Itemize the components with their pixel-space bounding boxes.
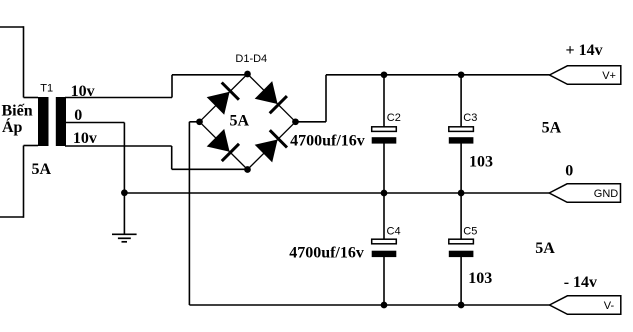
diode D2 (top-to-right) <box>255 81 287 113</box>
svg-text:D1-D4: D1-D4 <box>235 53 267 65</box>
wire: secondary 0 center tap <box>65 122 124 124</box>
wire: center tap drop to ground rail <box>123 123 125 194</box>
svg-text:10v: 10v <box>73 130 97 147</box>
svg-text:C4: C4 <box>387 226 401 238</box>
bridge rectifier D1-D4 diamond wires <box>200 74 296 170</box>
wire: +14v rail <box>326 74 550 76</box>
capacitor C5 plates <box>449 239 474 257</box>
wire: secondary 10v bottom tap <box>65 145 172 147</box>
svg-text:GND: GND <box>594 188 619 200</box>
node: center tap / ground junction <box>121 189 128 196</box>
wire: bridge minus output stub <box>189 121 199 123</box>
capacitor C4 lead top <box>383 193 385 240</box>
diode D4 (bottom-to-right) <box>255 130 287 162</box>
node: C2 bottom junction <box>381 190 388 197</box>
node: C3 bottom junction <box>458 190 465 197</box>
svg-text:4700uf/16v: 4700uf/16v <box>290 133 365 150</box>
wire: mains input bottom <box>0 216 24 218</box>
svg-text:0: 0 <box>74 107 82 124</box>
capacitor C2 lead top <box>383 75 385 128</box>
capacitor C3 lead bottom <box>460 143 462 193</box>
capacitor C4 plates <box>372 239 397 257</box>
svg-text:5A: 5A <box>535 240 555 257</box>
node: bridge right (plus) junction <box>292 118 299 125</box>
wire: bridge plus output horizontal <box>296 121 327 123</box>
wire: -14v rail <box>189 304 549 306</box>
wire: secondary 10v top tap <box>65 97 172 99</box>
node: bridge bottom AC junction <box>244 166 251 173</box>
ground symbol <box>112 234 137 242</box>
svg-text:C2: C2 <box>387 112 401 124</box>
svg-text:103: 103 <box>469 154 493 171</box>
wire: 0V ground rail <box>124 192 549 194</box>
capacitor C5 lead bottom <box>460 257 462 305</box>
diode D3 (left-to-bottom) <box>207 129 239 161</box>
svg-text:4700uf/16v: 4700uf/16v <box>289 245 364 262</box>
terminal GND connector <box>549 184 620 203</box>
svg-text:5A: 5A <box>32 161 52 178</box>
wire: mains left vertical lower <box>23 146 25 218</box>
capacitor C3 lead top <box>460 75 462 128</box>
svg-text:C5: C5 <box>463 226 477 238</box>
node: C5 bottom junction <box>458 302 465 309</box>
svg-text:103: 103 <box>468 270 492 287</box>
svg-text:- 14v: - 14v <box>564 274 597 291</box>
terminal V+ connector <box>550 66 621 85</box>
wire: bottom tap drop <box>171 146 173 169</box>
capacitor C2 lead bottom <box>383 143 385 193</box>
terminal V- connector <box>550 296 621 315</box>
wire: ground symbol drop <box>123 193 125 234</box>
svg-text:5A: 5A <box>230 112 250 129</box>
wire: plus output riser <box>325 75 327 122</box>
svg-text:C3: C3 <box>463 112 477 124</box>
capacitor C4 lead bottom <box>383 257 385 305</box>
svg-text:V+: V+ <box>602 70 616 82</box>
transformer T1 secondary winding bar <box>56 97 66 146</box>
wire: minus output drop <box>188 122 190 305</box>
svg-text:0: 0 <box>565 162 573 179</box>
wire: primary top stub <box>24 97 39 99</box>
node: bridge top AC junction <box>244 71 251 78</box>
svg-text:V-: V- <box>604 300 615 312</box>
svg-text:5A: 5A <box>542 119 562 136</box>
node: C2 top junction <box>381 71 388 78</box>
svg-text:Áp: Áp <box>2 117 23 136</box>
capacitor C5 lead top <box>460 193 462 240</box>
capacitor C3 plates <box>449 127 474 144</box>
wire: bottom tap to bridge AC node <box>172 168 248 170</box>
diode D1 (left-to-top) <box>207 83 239 115</box>
svg-text:10v: 10v <box>71 83 95 100</box>
wire: mains left vertical upper <box>23 26 25 97</box>
wire: top tap to bridge AC node <box>172 74 248 76</box>
node: C4 bottom junction <box>381 302 388 309</box>
node: C3 top junction <box>458 71 465 78</box>
svg-text:Biến: Biến <box>2 103 33 120</box>
node: bridge left (minus) junction <box>196 118 203 125</box>
wire: top tap riser <box>171 75 173 98</box>
wire: mains input top <box>0 26 24 28</box>
transformer T1 primary winding bar <box>38 97 49 146</box>
wire: primary bottom stub <box>24 145 39 147</box>
capacitor C2 plates <box>372 127 397 144</box>
svg-text:+ 14v: + 14v <box>566 42 603 59</box>
svg-text:T1: T1 <box>40 83 53 95</box>
